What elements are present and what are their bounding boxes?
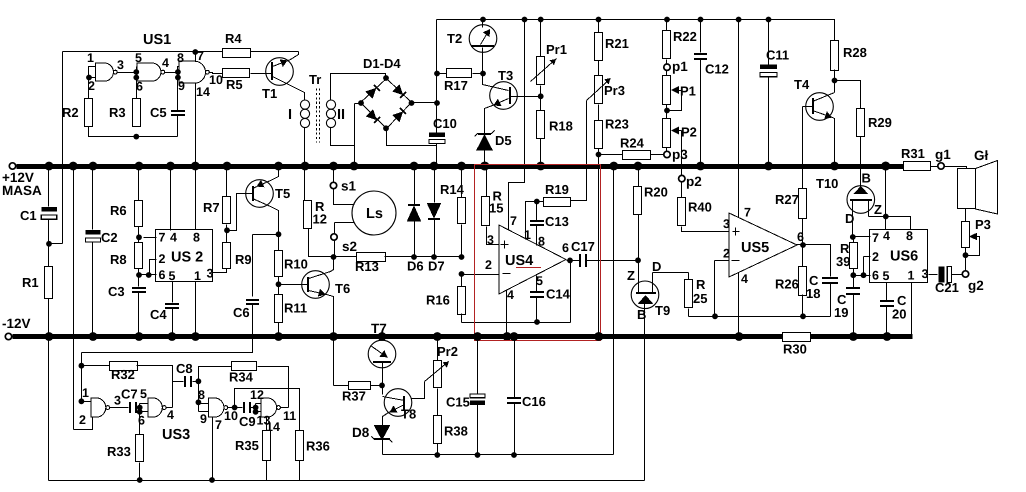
svg-text:R29: R29 [868,115,892,130]
svg-text:5: 5 [883,269,890,283]
svg-text:D5: D5 [495,133,512,148]
svg-text:C12: C12 [705,62,729,77]
svg-text:P1: P1 [680,84,696,99]
svg-text:p1: p1 [672,59,688,74]
svg-text:14: 14 [266,420,280,434]
svg-text:4: 4 [170,231,177,245]
svg-text:C4: C4 [150,307,167,322]
svg-text:R6: R6 [110,203,127,218]
svg-text:US5: US5 [741,240,769,256]
svg-text:s1: s1 [341,179,357,194]
svg-text:s2: s2 [342,239,357,254]
svg-text:C10: C10 [433,116,457,131]
svg-text:6: 6 [872,269,879,283]
svg-text:US6: US6 [890,249,918,265]
svg-text:6: 6 [138,414,145,428]
svg-text:R28: R28 [843,45,867,60]
svg-text:C3: C3 [108,284,125,299]
svg-text:R18: R18 [549,119,573,134]
svg-text:p3: p3 [672,147,688,162]
svg-text:R7: R7 [203,200,220,215]
svg-text:2: 2 [485,258,492,272]
svg-text:-12V: -12V [2,316,31,331]
svg-text:8: 8 [177,51,184,65]
svg-text:R35: R35 [235,438,259,453]
svg-text:6: 6 [136,80,143,94]
svg-text:US1: US1 [143,32,171,48]
svg-text:R1: R1 [22,275,39,290]
svg-text:Z: Z [874,202,882,217]
svg-text:5: 5 [169,269,176,283]
svg-text:US4: US4 [505,253,533,269]
svg-text:C8: C8 [176,361,193,376]
svg-text:7: 7 [159,231,166,245]
svg-text:R30: R30 [783,342,807,357]
svg-text:10: 10 [209,73,223,87]
svg-text:Pr3: Pr3 [604,83,625,98]
svg-text:1: 1 [87,51,94,65]
svg-text:R10: R10 [284,257,308,272]
svg-text:B: B [862,171,871,186]
svg-text:C14: C14 [546,287,571,302]
svg-text:R40: R40 [688,200,712,215]
svg-text:1: 1 [82,386,89,400]
svg-text:T3: T3 [498,68,513,83]
svg-text:R26: R26 [775,277,799,292]
svg-text:B: B [637,307,646,322]
svg-text:2: 2 [88,79,95,93]
svg-text:R11: R11 [284,301,307,316]
svg-text:US3: US3 [162,427,190,443]
svg-text:P2: P2 [681,125,697,140]
svg-text:R34: R34 [229,370,254,385]
svg-text:MASA: MASA [2,183,42,198]
svg-text:D: D [845,211,854,226]
svg-text:D8: D8 [352,425,370,440]
svg-text:T8: T8 [401,407,416,422]
svg-text:4: 4 [507,288,514,302]
svg-text:8: 8 [906,229,913,243]
svg-text:R8: R8 [110,252,127,267]
svg-text:C17: C17 [571,239,595,254]
svg-text:2: 2 [872,250,879,264]
svg-text:C16: C16 [522,394,546,409]
svg-text:3: 3 [922,267,929,281]
svg-text:R20: R20 [644,185,668,200]
svg-text:R37: R37 [342,389,366,404]
svg-text:5: 5 [140,387,147,401]
svg-text:Z: Z [627,268,635,283]
svg-text:C7: C7 [121,387,138,402]
svg-text:R4: R4 [225,31,242,46]
svg-text:C9: C9 [239,414,256,429]
svg-text:C13: C13 [545,214,569,229]
svg-text:3: 3 [117,58,124,72]
svg-text:T10: T10 [816,176,838,191]
svg-text:1: 1 [194,269,201,283]
svg-text:9: 9 [200,412,207,426]
svg-text:R36: R36 [306,439,330,454]
svg-text:D: D [652,259,661,274]
svg-text:4: 4 [162,56,169,70]
svg-text:2: 2 [723,247,730,261]
svg-text:5: 5 [135,51,142,65]
svg-text:7: 7 [215,418,222,432]
svg-text:T5: T5 [275,186,290,201]
svg-text:R5: R5 [226,77,243,92]
svg-text:C2: C2 [101,230,118,245]
svg-text:US 2: US 2 [171,250,203,266]
svg-text:8: 8 [193,231,200,245]
svg-text:R33: R33 [107,444,131,459]
svg-text:C11: C11 [766,48,789,63]
svg-text:R24: R24 [620,136,645,151]
svg-text:3: 3 [723,217,730,231]
svg-text:g2: g2 [968,278,984,293]
svg-text:R17: R17 [444,78,468,93]
svg-text:4: 4 [741,272,748,286]
svg-text:8: 8 [198,388,205,402]
svg-text:T2: T2 [447,31,462,46]
svg-text:R3: R3 [109,105,126,120]
svg-text:C5: C5 [150,105,167,120]
svg-text:7: 7 [744,206,751,220]
svg-text:4: 4 [167,408,174,422]
svg-text:R31: R31 [901,146,925,161]
svg-text:12: 12 [250,388,264,402]
svg-text:D7: D7 [428,259,445,274]
svg-text:8: 8 [538,235,545,249]
svg-text:10: 10 [224,409,238,423]
svg-text:15: 15 [489,201,503,216]
svg-text:6: 6 [159,268,166,282]
svg-text:T6: T6 [335,281,350,296]
svg-text:19: 19 [834,305,848,320]
svg-text:Tr: Tr [309,72,321,87]
svg-text:T4: T4 [794,77,810,92]
svg-text:R16: R16 [426,293,450,308]
svg-text:11: 11 [283,409,296,423]
svg-text:25: 25 [693,291,707,306]
svg-text:D1-D4: D1-D4 [363,56,401,71]
svg-text:7: 7 [510,214,517,228]
svg-text:Ls: Ls [366,206,383,222]
svg-text:Pr1: Pr1 [546,42,567,57]
svg-text:R23: R23 [605,117,629,132]
svg-text:1: 1 [908,269,915,283]
svg-text:3: 3 [114,394,121,408]
svg-text:C1: C1 [20,208,37,223]
svg-text:12: 12 [313,212,327,227]
svg-text:P3: P3 [975,217,991,232]
svg-text:T9: T9 [655,303,670,318]
svg-text:p2: p2 [686,174,702,189]
svg-text:T1: T1 [262,86,277,101]
svg-text:C21: C21 [935,280,959,295]
svg-text:R32: R32 [111,367,135,382]
svg-text:R9: R9 [235,252,252,267]
svg-text:C6: C6 [233,305,250,320]
svg-text:4: 4 [883,229,890,243]
svg-text:R2: R2 [62,105,79,120]
svg-text:7: 7 [197,49,204,63]
svg-text:6: 6 [562,241,569,255]
svg-text:2: 2 [159,252,166,266]
svg-text:R: R [696,277,706,292]
svg-text:C15: C15 [446,395,470,410]
svg-text:R13: R13 [355,259,379,274]
svg-text:Gł: Gł [974,148,989,163]
svg-text:R22: R22 [673,29,697,44]
svg-text:18: 18 [806,286,820,301]
svg-text:5: 5 [536,274,543,288]
svg-text:D6: D6 [407,259,424,274]
svg-text:2: 2 [79,413,86,427]
svg-text:R19: R19 [545,182,569,197]
svg-text:R14: R14 [440,182,465,197]
svg-text:II: II [337,107,345,123]
svg-text:R21: R21 [605,36,629,51]
svg-text:39: 39 [836,254,850,269]
svg-text:R27: R27 [775,192,799,207]
svg-text:R38: R38 [444,424,468,439]
svg-text:T7: T7 [371,321,387,336]
svg-text:14: 14 [196,85,210,99]
svg-text:I: I [288,107,292,123]
svg-text:g1: g1 [935,147,951,162]
svg-text:20: 20 [892,307,906,322]
svg-text:Pr2: Pr2 [437,344,458,359]
svg-text:9: 9 [178,79,185,93]
svg-text:3: 3 [207,267,214,281]
svg-text:7: 7 [872,231,879,245]
